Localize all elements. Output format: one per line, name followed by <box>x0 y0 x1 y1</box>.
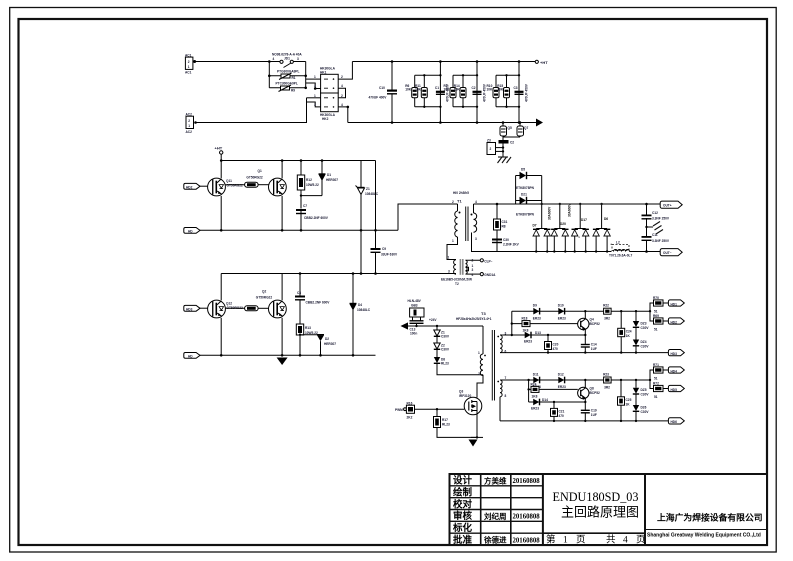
svg-text:4: 4 <box>273 57 275 61</box>
svg-text:OUT+: OUT+ <box>663 203 672 207</box>
svg-text:7: 7 <box>505 376 507 380</box>
svg-text:R70: R70 <box>653 296 659 300</box>
svg-text:10K: 10K <box>454 88 461 92</box>
svg-text:GND1A: GND1A <box>484 273 496 277</box>
svg-text:1: 1 <box>314 94 316 98</box>
svg-text:HD: HD <box>188 230 193 234</box>
svg-text:Q3: Q3 <box>459 390 463 394</box>
svg-text:CBB2.2NF 600V: CBB2.2NF 600V <box>304 216 329 220</box>
svg-text:470UF 450V: 470UF 450V <box>524 83 528 102</box>
svg-text:10K: 10K <box>497 88 504 92</box>
svg-text:2: 2 <box>452 200 454 204</box>
svg-text:2: 2 <box>341 75 343 79</box>
svg-text:C30V: C30V <box>641 326 650 330</box>
svg-text:1: 1 <box>314 75 316 79</box>
svg-text:ETK8078PN: ETK8078PN <box>516 213 535 217</box>
svg-text:1K: 1K <box>626 402 631 406</box>
svg-text:30A600V: 30A600V <box>568 203 572 217</box>
svg-text:C20: C20 <box>553 343 559 347</box>
svg-text:绘制: 绘制 <box>453 487 473 499</box>
svg-text:BCP52: BCP52 <box>590 322 601 326</box>
svg-text:C25: C25 <box>626 398 632 402</box>
svg-text:Q12: Q12 <box>226 302 232 306</box>
svg-text:10W5.22: 10W5.22 <box>306 183 319 187</box>
svg-text:R72: R72 <box>653 381 659 385</box>
svg-text:Shanghai Greatway Welding Equi: Shanghai Greatway Welding Equipment CO.,… <box>647 533 761 539</box>
svg-text:D7: D7 <box>533 224 537 228</box>
svg-text:R24: R24 <box>531 382 537 386</box>
svg-text:51: 51 <box>654 328 658 332</box>
svg-text:C24: C24 <box>626 329 632 333</box>
svg-text:Q8: Q8 <box>590 387 594 391</box>
svg-text:3: 3 <box>472 268 474 272</box>
svg-text:HD5: HD5 <box>671 388 678 392</box>
svg-text:Z1: Z1 <box>366 187 370 191</box>
svg-text:PWM: PWM <box>395 408 403 412</box>
svg-text:20160808: 20160808 <box>513 538 541 545</box>
svg-text:1: 1 <box>448 256 450 260</box>
svg-text:10K: 10K <box>487 88 494 92</box>
svg-text:C3: C3 <box>514 86 518 90</box>
svg-text:470: 470 <box>559 414 565 418</box>
svg-text:R1: R1 <box>292 76 296 80</box>
svg-text:+HT: +HT <box>540 60 548 65</box>
svg-text:D26: D26 <box>641 406 647 410</box>
svg-text:3.3NF 250V: 3.3NF 250V <box>652 239 670 243</box>
svg-text:审核: 审核 <box>453 510 473 522</box>
svg-text:100n: 100n <box>410 332 417 336</box>
svg-text:设计: 设计 <box>453 475 473 487</box>
svg-text:HD2: HD2 <box>186 186 193 190</box>
svg-text:Q11: Q11 <box>226 179 232 183</box>
svg-text:Q2: Q2 <box>262 290 266 294</box>
svg-text:HK2: HK2 <box>322 117 329 121</box>
svg-text:3: 3 <box>448 270 450 274</box>
svg-text:3.3NF 250V: 3.3NF 250V <box>652 217 670 221</box>
svg-text:D20: D20 <box>560 222 566 226</box>
svg-text:DZ3: DZ3 <box>641 322 647 326</box>
svg-text:C14: C14 <box>591 343 597 347</box>
svg-text:D13: D13 <box>535 331 541 335</box>
svg-text:3R2: 3R2 <box>604 317 610 321</box>
svg-text:Q4: Q4 <box>590 318 594 322</box>
svg-text:2.2NF 2KV: 2.2NF 2KV <box>503 243 520 247</box>
svg-text:C30V: C30V <box>641 410 650 414</box>
svg-text:3R2: 3R2 <box>604 385 610 389</box>
svg-text:HD2: HD2 <box>671 320 678 324</box>
svg-text:校对: 校对 <box>453 498 473 510</box>
svg-text:PTG300GA9PL: PTG300GA9PL <box>277 70 300 74</box>
svg-text:方美维: 方美维 <box>484 475 507 485</box>
svg-text:DZ5: DZ5 <box>641 388 647 392</box>
svg-text:D21: D21 <box>521 193 527 197</box>
svg-text:ER23: ER23 <box>558 316 566 320</box>
svg-text:8: 8 <box>505 394 507 398</box>
svg-text:页: 页 <box>636 534 646 545</box>
svg-text:C30: C30 <box>503 238 509 242</box>
svg-text:470: 470 <box>553 347 559 351</box>
svg-text:D12: D12 <box>558 372 564 376</box>
svg-text:3: 3 <box>297 57 299 61</box>
svg-text:2: 2 <box>478 372 480 376</box>
svg-text:1: 1 <box>452 239 454 243</box>
svg-text:2: 2 <box>188 119 190 123</box>
svg-text:51: 51 <box>654 310 658 314</box>
svg-text:R22: R22 <box>603 304 609 308</box>
svg-text:JD1: JD1 <box>284 57 290 61</box>
svg-text:C21: C21 <box>559 409 565 413</box>
svg-text:4: 4 <box>341 84 343 88</box>
svg-text:C30V: C30V <box>441 335 450 339</box>
svg-text:C9: C9 <box>382 247 386 251</box>
svg-text:1K8: 1K8 <box>532 394 538 398</box>
svg-text:C19: C19 <box>591 408 597 412</box>
svg-text:C30V: C30V <box>641 345 650 349</box>
svg-text:10K: 10K <box>405 88 412 92</box>
svg-text:C8: C8 <box>297 291 301 295</box>
svg-text:EE16B5-3C8h0/L5/W: EE16B5-3C8h0/L5/W <box>441 278 472 282</box>
svg-text:D5: D5 <box>521 168 525 172</box>
svg-text:1UF: 1UF <box>591 347 597 351</box>
svg-text:ENDU180SD_03: ENDU180SD_03 <box>553 490 639 504</box>
svg-text:GB3: GB3 <box>411 304 418 308</box>
svg-text:C7: C7 <box>303 204 307 208</box>
svg-text:C30V: C30V <box>441 348 450 352</box>
svg-text:20160808: 20160808 <box>513 514 541 521</box>
svg-text:Q5: Q5 <box>508 126 512 130</box>
svg-text:HD6: HD6 <box>671 420 678 424</box>
svg-text:L2: L2 <box>616 241 620 245</box>
svg-text:10848LC: 10848LC <box>357 308 371 312</box>
svg-text:D11: D11 <box>533 372 539 376</box>
svg-text:R23: R23 <box>603 372 609 376</box>
svg-text:CBB2.2NF 600V: CBB2.2NF 600V <box>306 301 331 305</box>
svg-text:1: 1 <box>188 65 190 69</box>
svg-text:T2: T2 <box>455 282 459 286</box>
svg-text:1: 1 <box>478 351 480 355</box>
svg-text:HD: HD <box>188 355 193 359</box>
svg-text:R9: R9 <box>291 89 295 93</box>
svg-text:R17: R17 <box>442 418 448 422</box>
svg-text:R18: R18 <box>522 317 528 321</box>
svg-text:HD1: HD1 <box>671 302 678 306</box>
svg-text:2: 2 <box>188 60 190 64</box>
svg-text:2K2: 2K2 <box>407 416 413 420</box>
svg-text:HI0 2h5/h5: HI0 2h5/h5 <box>453 191 469 195</box>
svg-text:2: 2 <box>341 94 343 98</box>
svg-text:D9: D9 <box>533 304 537 308</box>
svg-text:PTC300GA9PL: PTC300GA9PL <box>276 82 298 86</box>
svg-text:C2: C2 <box>472 86 476 90</box>
svg-text:共: 共 <box>606 534 616 545</box>
svg-text:DZ4: DZ4 <box>641 340 647 344</box>
svg-text:C12: C12 <box>652 211 658 215</box>
svg-text:ER23: ER23 <box>533 316 541 320</box>
svg-text:470UF 400V: 470UF 400V <box>369 96 388 100</box>
svg-text:上海广为焊接设备有限公司: 上海广为焊接设备有限公司 <box>657 512 763 523</box>
svg-text:BCP52: BCP52 <box>590 391 601 395</box>
svg-text:D14: D14 <box>542 398 548 402</box>
svg-text:HF28x4Hx2h25/3Y3.4+1: HF28x4Hx2h25/3Y3.4+1 <box>456 317 492 321</box>
svg-text:HLN-48V: HLN-48V <box>408 299 422 303</box>
svg-text:GT50RG22: GT50RG22 <box>227 184 244 188</box>
svg-text:1: 1 <box>188 124 190 128</box>
svg-text:3: 3 <box>314 103 316 107</box>
svg-text:RL23: RL23 <box>441 362 449 366</box>
svg-text:1UF: 1UF <box>591 413 597 417</box>
svg-text:RL23: RL23 <box>442 423 450 427</box>
svg-text:ER23: ER23 <box>558 385 566 389</box>
svg-text:1K8: 1K8 <box>523 329 529 333</box>
svg-text:D17: D17 <box>581 218 587 222</box>
svg-text:4: 4 <box>341 103 343 107</box>
svg-text:OUT−: OUT− <box>663 251 672 255</box>
svg-text:CLP−: CLP− <box>484 259 492 263</box>
svg-text:20160808: 20160808 <box>513 478 541 485</box>
svg-text:R71: R71 <box>653 363 659 367</box>
svg-text:R13: R13 <box>305 326 311 330</box>
svg-text:1: 1 <box>563 535 568 545</box>
svg-text:10K: 10K <box>415 88 422 92</box>
svg-text:R69: R69 <box>653 314 659 318</box>
svg-text:HD3: HD3 <box>671 352 678 356</box>
svg-text:51: 51 <box>654 395 658 399</box>
svg-text:刘纪周: 刘纪周 <box>484 511 507 521</box>
svg-text:+24V: +24V <box>429 318 437 322</box>
svg-text:D10: D10 <box>558 304 564 308</box>
svg-text:D2: D2 <box>325 337 329 341</box>
svg-text:D6: D6 <box>604 217 608 221</box>
svg-text:C30V: C30V <box>641 393 650 397</box>
svg-text:ETK8078PN: ETK8078PN <box>516 186 535 190</box>
svg-text:Q1: Q1 <box>258 169 262 173</box>
svg-text:Z3: Z3 <box>487 139 491 143</box>
svg-text:4: 4 <box>623 535 628 545</box>
svg-text:HD4: HD4 <box>671 369 678 373</box>
svg-text:ER23: ER23 <box>531 407 539 411</box>
svg-text:R8: R8 <box>502 225 506 229</box>
svg-text:标化: 标化 <box>452 522 473 534</box>
svg-text:33UF 630V: 33UF 630V <box>381 253 398 257</box>
svg-text:HD3: HD3 <box>186 308 193 312</box>
svg-text:GT50RG22: GT50RG22 <box>246 176 263 180</box>
svg-text:AC1: AC1 <box>185 71 192 75</box>
svg-text:10K: 10K <box>444 88 451 92</box>
svg-text:4: 4 <box>475 200 477 204</box>
svg-text:C10: C10 <box>379 86 385 90</box>
svg-text:GT50RG22: GT50RG22 <box>256 295 273 299</box>
svg-text:Q7: Q7 <box>524 126 528 130</box>
svg-text:10848LC: 10848LC <box>365 192 379 196</box>
svg-text:T071.26.6A-0L7: T071.26.6A-0L7 <box>609 254 632 258</box>
svg-text:C2: C2 <box>510 141 514 145</box>
svg-text:30A600V: 30A600V <box>548 206 552 220</box>
svg-text:HER307: HER307 <box>326 178 338 182</box>
svg-text:主回路原理图: 主回路原理图 <box>561 505 639 520</box>
svg-text:批准: 批准 <box>453 534 473 546</box>
svg-text:T1: T1 <box>457 199 462 204</box>
svg-text:HER307: HER307 <box>324 342 336 346</box>
svg-text:T3: T3 <box>481 311 486 316</box>
svg-text:ER23: ER23 <box>524 340 532 344</box>
svg-text:C1: C1 <box>435 86 439 90</box>
svg-text:D1: D1 <box>327 173 331 177</box>
svg-text:AC2: AC2 <box>186 130 193 134</box>
svg-text:51: 51 <box>654 377 658 381</box>
svg-text:D4: D4 <box>358 303 362 307</box>
svg-text:徐德进: 徐德进 <box>483 535 507 545</box>
svg-text:R12: R12 <box>306 178 312 182</box>
svg-text:+HT: +HT <box>215 146 223 151</box>
svg-text:第: 第 <box>546 533 556 545</box>
svg-text:2: 2 <box>490 147 492 151</box>
svg-text:1K: 1K <box>626 334 631 338</box>
svg-text:3: 3 <box>475 237 477 241</box>
svg-text:页: 页 <box>576 534 586 545</box>
svg-text:C31: C31 <box>502 220 508 224</box>
